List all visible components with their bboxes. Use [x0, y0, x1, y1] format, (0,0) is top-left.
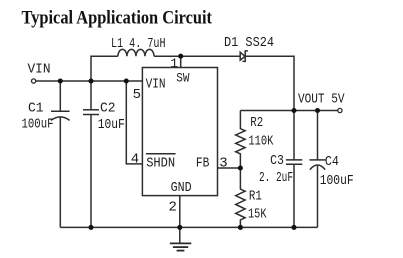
svg-text:C2: C2	[100, 102, 116, 117]
capacitor C1	[59, 81, 61, 111]
node dot VOUT/C4	[315, 108, 320, 113]
svg-text:L1 4. 7uH: L1 4. 7uH	[111, 37, 166, 52]
wire input rail	[36, 80, 142, 82]
wire VOUT rail	[240, 110, 338, 112]
capacitor C2	[90, 81, 92, 110]
pin 3 wire FB	[218, 167, 241, 169]
wire bus pin5/pin4	[126, 81, 142, 164]
svg-text:3: 3	[219, 156, 227, 172]
svg-text:C1: C1	[28, 102, 44, 117]
svg-text:VOUT 5V: VOUT 5V	[298, 93, 345, 108]
svg-text:VIN: VIN	[146, 77, 166, 92]
svg-text:R2: R2	[250, 116, 263, 131]
resistor R1	[236, 168, 245, 227]
node dot C1/input	[58, 78, 63, 83]
svg-text:5: 5	[133, 87, 141, 103]
svg-text:10uF: 10uF	[98, 118, 125, 133]
VOUT terminal	[338, 108, 342, 112]
svg-text:15K: 15K	[248, 208, 267, 223]
svg-text:4: 4	[131, 151, 139, 167]
op-amp U1 (IC box)	[142, 68, 217, 196]
wire top rail right + drop to VOUT rail	[245, 56, 294, 110]
ground	[170, 242, 191, 244]
node dot SW	[178, 54, 183, 59]
svg-text:C3: C3	[270, 154, 284, 169]
svg-text:R1: R1	[249, 189, 262, 204]
svg-text:1: 1	[170, 56, 178, 71]
node dot gnd C3	[291, 225, 296, 230]
svg-text:110K: 110K	[248, 134, 274, 149]
svg-text:2. 2uF: 2. 2uF	[259, 171, 293, 186]
diode D1	[240, 52, 245, 60]
pin SW stub	[180, 56, 182, 67]
inductor L1	[118, 49, 154, 56]
node dot bus/input	[124, 78, 129, 83]
pin 2 GND wire	[179, 196, 181, 244]
node dot VOUT/C3	[291, 108, 296, 113]
node dot C2/input	[88, 78, 93, 83]
wire bottom rail	[60, 226, 317, 228]
svg-text:FB: FB	[196, 156, 210, 171]
svg-text:SW: SW	[176, 71, 190, 85]
resistor R2	[236, 111, 245, 169]
svg-text:SHDN: SHDN	[146, 156, 175, 171]
svg-text:C4: C4	[325, 155, 339, 170]
svg-text:100uF: 100uF	[22, 118, 54, 133]
svg-text:D1 SS24: D1 SS24	[224, 36, 274, 51]
capacitor C4	[317, 111, 319, 160]
svg-text:2: 2	[169, 200, 177, 216]
capacitor C3	[293, 111, 295, 160]
node dot gnd C2	[88, 225, 93, 230]
svg-text:GND: GND	[171, 181, 192, 196]
svg-text:Typical Application Circuit: Typical Application Circuit	[22, 8, 213, 29]
wire riser to top rail	[91, 56, 118, 81]
VIN terminal	[31, 79, 35, 83]
svg-text:VIN: VIN	[28, 63, 51, 78]
node dot gnd pin2	[177, 225, 182, 230]
node dot FB	[238, 165, 243, 170]
wire top rail	[154, 55, 240, 57]
svg-text:100uF: 100uF	[320, 174, 354, 189]
node dot gnd R1	[238, 225, 243, 230]
